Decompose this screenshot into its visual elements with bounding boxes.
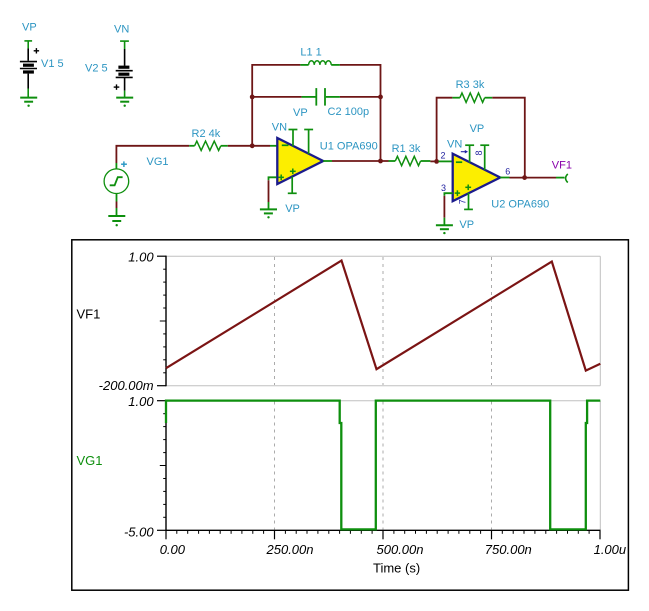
svg-text:VP: VP bbox=[459, 219, 474, 231]
svg-text:1.00: 1.00 bbox=[128, 249, 154, 264]
capacitor C2 bbox=[302, 88, 340, 106]
svg-text:3: 3 bbox=[441, 183, 446, 193]
trace VF1 sawtooth bbox=[166, 261, 600, 371]
svg-text:500.00n: 500.00n bbox=[377, 542, 424, 557]
wire R3 loop right bbox=[492, 98, 525, 178]
svg-text:1.00: 1.00 bbox=[128, 394, 154, 409]
wire feedback left vertical bbox=[252, 65, 300, 146]
svg-text:VF1: VF1 bbox=[552, 159, 572, 171]
junction at U1 input node bbox=[250, 143, 255, 148]
svg-text:2: 2 bbox=[441, 150, 446, 160]
pane 1 dashed gridlines bbox=[275, 257, 492, 385]
wire R2 to U1 minus input bbox=[228, 145, 270, 147]
inductor L1 bbox=[300, 61, 340, 65]
svg-text:VP: VP bbox=[293, 107, 308, 119]
svg-text:VF1: VF1 bbox=[77, 307, 101, 322]
wire C2 right bbox=[340, 96, 381, 98]
ground of V1 bbox=[20, 98, 37, 107]
ground of U1 bbox=[260, 209, 277, 218]
svg-text:C2 100p: C2 100p bbox=[328, 106, 370, 118]
ground of V2 bbox=[116, 98, 133, 107]
svg-text:R2 4k: R2 4k bbox=[192, 128, 221, 140]
pane 1 minor ticks bbox=[160, 269, 166, 373]
svg-text:VP: VP bbox=[285, 203, 300, 215]
power pin VP top of U2 bbox=[480, 145, 489, 170]
wire feedback right vertical to output bbox=[380, 97, 382, 161]
svg-text:U2 OPA690: U2 OPA690 bbox=[491, 198, 549, 210]
wire VG1 to ground bbox=[116, 193, 118, 216]
svg-text:R3 3k: R3 3k bbox=[456, 79, 485, 91]
x-axis major ticks bbox=[166, 530, 600, 539]
wire R1 to U2 bbox=[430, 160, 438, 162]
pane 2 gray border top and right bbox=[166, 401, 600, 531]
svg-text:1.00u: 1.00u bbox=[594, 542, 627, 557]
svg-text:-200.00m: -200.00m bbox=[99, 378, 154, 393]
output terminal VF1 bbox=[566, 174, 568, 183]
svg-text:V1 5: V1 5 bbox=[41, 58, 64, 70]
op-amp U2 bbox=[453, 154, 501, 202]
battery V1 bbox=[20, 41, 39, 97]
wire R3 loop left bbox=[437, 98, 453, 162]
voltage generator VG1 bbox=[104, 161, 129, 193]
svg-text:0.00: 0.00 bbox=[160, 542, 186, 557]
svg-text:750.00n: 750.00n bbox=[485, 542, 532, 557]
svg-text:U1 OPA690: U1 OPA690 bbox=[320, 141, 378, 153]
svg-text:6: 6 bbox=[505, 167, 510, 177]
battery V2 bbox=[114, 41, 133, 97]
wire C2 left bbox=[252, 96, 301, 98]
junction at U2 output bbox=[522, 175, 527, 180]
wire U2 plus input to ground bbox=[444, 193, 452, 225]
x-axis bbox=[165, 529, 600, 531]
wire U2 output bbox=[500, 177, 564, 179]
junction at U2 input bbox=[434, 159, 439, 164]
wire VG1 to R2 bbox=[116, 146, 189, 163]
junction feedback right bbox=[378, 95, 383, 100]
svg-text:VN: VN bbox=[114, 23, 129, 35]
svg-text:8: 8 bbox=[474, 150, 484, 155]
resistor R2 bbox=[189, 141, 228, 150]
trace VG1 square wave bbox=[166, 401, 600, 530]
power pin bottom of U1 bbox=[288, 177, 297, 194]
pin arrow of U2 bbox=[461, 150, 468, 154]
pane 1 y-axis bbox=[165, 256, 167, 387]
x-axis minor ticks bbox=[177, 530, 589, 534]
wire U1 plus input to ground bbox=[269, 177, 277, 209]
svg-text:VP: VP bbox=[470, 123, 485, 135]
pane 2 dashed gridlines bbox=[275, 402, 492, 530]
svg-text:VN: VN bbox=[272, 122, 287, 134]
svg-text:R1 3k: R1 3k bbox=[392, 143, 421, 155]
svg-text:VN: VN bbox=[447, 138, 462, 150]
power pin VN of U1 bbox=[289, 130, 298, 147]
pane 2 major ticks bbox=[157, 401, 166, 531]
svg-text:-5.00: -5.00 bbox=[124, 524, 154, 539]
pane 1 major ticks bbox=[157, 256, 166, 386]
ground of U2 bbox=[436, 225, 453, 234]
power pin bottom of U2 bbox=[464, 193, 473, 210]
resistor R3 bbox=[452, 93, 492, 102]
wire L1 to feedback right vertical bbox=[340, 65, 381, 97]
chart outer frame bbox=[72, 240, 629, 590]
svg-text:V2 5: V2 5 bbox=[85, 62, 108, 74]
wire green stub into U2 minus bbox=[439, 160, 453, 162]
pane 1 gray borders bbox=[166, 256, 600, 386]
wire U1 output bbox=[323, 160, 388, 162]
svg-text:7: 7 bbox=[457, 199, 467, 204]
pane 2 y-axis bbox=[165, 400, 167, 530]
resistor R1 bbox=[389, 156, 431, 165]
pane 2 minor ticks bbox=[160, 414, 166, 518]
power pin VP top of U1 bbox=[304, 130, 313, 155]
power pin VN of U2 bbox=[465, 145, 474, 162]
junction at U1 output bbox=[378, 159, 383, 164]
svg-text:VG1: VG1 bbox=[77, 453, 103, 468]
svg-text:VG1: VG1 bbox=[147, 156, 169, 168]
svg-text:L1 1: L1 1 bbox=[300, 47, 321, 59]
junction feedback left bbox=[250, 95, 255, 100]
ground of VG1 bbox=[108, 216, 125, 226]
svg-text:Time (s): Time (s) bbox=[373, 560, 420, 575]
op-amp U1 bbox=[277, 138, 323, 184]
svg-text:VP: VP bbox=[22, 21, 37, 33]
wire green stub into U1 minus bbox=[270, 145, 277, 147]
svg-text:250.00n: 250.00n bbox=[266, 542, 314, 557]
